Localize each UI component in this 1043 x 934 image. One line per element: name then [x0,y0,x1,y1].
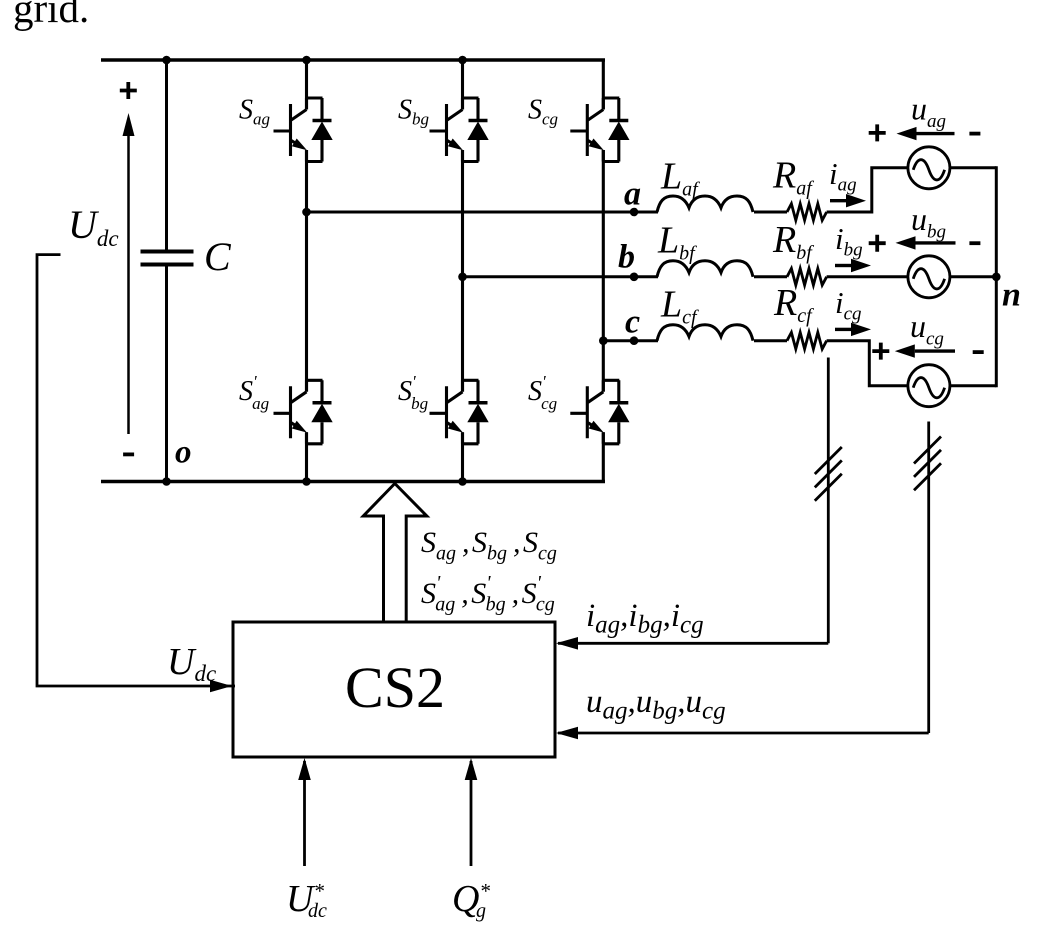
transistor S_cg [570,98,629,162]
node junction top leg a [302,56,311,65]
svg-text:S'bg: S'bg [398,372,428,413]
svg-text:S'ag , S'bg , S'cg: S'ag , S'bg , S'cg [421,572,555,616]
node tap leg a [302,208,311,217]
svg-text:Q*g: Q*g [452,878,490,922]
wire leg b upper [461,60,464,110]
wire Udc sense stub [37,255,235,686]
svg-text:o: o [175,435,192,471]
svg-text:grid.: grid. [13,0,89,31]
arrow current i_bg [835,264,851,267]
wire current feedback into CS2 [558,642,828,645]
arrow Udc* input [303,761,306,866]
transistor S'_ag [274,380,333,444]
wire leg b middle [461,150,464,392]
resistor R_cf [787,332,827,349]
arrow u_ag polarity [916,132,955,135]
svg-text:Udc: Udc [68,202,119,251]
svg-text:Rcf: Rcf [773,282,814,327]
svg-text:Lcf: Lcf [660,284,699,329]
svg-text:Sag , Sbg , Scg: Sag , Sbg , Scg [421,526,557,565]
transistor S_bg [430,98,489,162]
arrow current i_cg [835,328,851,331]
node tap leg b [458,273,467,282]
svg-text:Sbg: Sbg [398,95,429,129]
transistor S'_cg [570,380,629,444]
wire top DC rail [101,58,605,61]
node junction bottom leg a [302,477,311,486]
voltage source u_cg [908,365,950,407]
node junction bottom leg b [458,477,467,486]
label - u_cg [973,351,984,353]
svg-text:ibg: ibg [835,221,863,261]
inductor L_cf [657,325,753,341]
svg-text:uag,ubg,ucg: uag,ubg,ucg [586,684,726,725]
svg-text:Sag: Sag [239,95,270,129]
svg-text:U*dc: U*dc [286,878,327,922]
voltage source u_ag [908,147,950,189]
arrow u_bg polarity [915,241,956,244]
inductor L_af [657,196,753,212]
block CS2 [233,622,555,757]
svg-text:iag,ibg,icg: iag,ibg,icg [586,598,704,639]
node junction top leg b [458,56,467,65]
wire phase a [307,211,659,214]
label - dc negative [123,453,134,455]
svg-text:Udc: Udc [167,641,216,686]
node n [992,273,1001,282]
wire leg c middle [602,150,605,392]
svg-text:a: a [624,176,641,213]
svg-text:Laf: Laf [660,156,700,201]
wire phase c to source [827,341,908,386]
inductor L_bf [657,261,753,277]
svg-text:C: C [204,234,232,279]
wire bottom DC rail [101,480,605,483]
svg-text:Scg: Scg [528,95,558,129]
wire voltage measurement tap [927,422,930,734]
arrow gate signals hollow [363,484,427,623]
wire leg c lower [603,432,605,481]
svg-text:iag: iag [829,156,857,196]
node junction top capacitor [162,56,171,65]
svg-text:S'ag: S'ag [239,372,269,413]
svg-text:c: c [625,304,640,341]
slash marks current measurement [815,447,842,501]
node a [630,208,639,217]
svg-text:ucg: ucg [910,308,944,350]
wire u_cg to rail [950,384,996,387]
svg-text:n: n [1002,277,1021,314]
wire phase a mid [754,211,787,214]
wire leg a middle [305,150,308,392]
wire leg c upper [603,60,605,110]
wire phase b mid [754,275,787,278]
svg-text:b: b [618,239,635,276]
wire leg a upper [305,60,308,110]
label - u_bg [969,242,980,244]
svg-text:ubg: ubg [911,201,946,243]
svg-text:uag: uag [911,91,946,133]
svg-text:S'cg: S'cg [528,372,557,413]
wire u_bg to rail [950,275,996,278]
wire phase a to source [827,168,908,212]
wire current measurement tap [827,358,830,644]
resistor R_bf [787,269,827,286]
node tap leg c [599,336,608,345]
label + u_bg [869,235,886,252]
slash marks voltage measurement [914,437,941,491]
wire phase c mid [754,339,787,342]
wire u_ag to rail [950,166,996,169]
node c [630,336,639,345]
svg-text:Lbf: Lbf [657,220,697,265]
label + u_ag [869,124,886,141]
capacitor C [141,60,194,482]
transistor S'_bg [430,380,489,444]
svg-text:Rbf: Rbf [772,219,814,264]
svg-text:Raf: Raf [772,155,814,200]
wire right grid rail [995,166,998,387]
wire phase b [463,275,659,278]
node b [630,273,639,282]
arrow Udc into CS2 [210,680,232,693]
arrow current i_ag [830,199,848,202]
wire voltage feedback into CS2 [558,732,929,735]
arrow u_cg polarity [915,349,955,352]
svg-text:icg: icg [835,285,862,325]
wire leg a lower [305,432,308,481]
arrow Qg* input [470,761,473,866]
wire phase c [603,339,658,342]
node junction bottom capacitor [162,477,171,486]
label - u_ag [969,133,980,135]
label + u_cg [872,343,889,360]
wire phase b to source [827,275,908,278]
arrow Udc voltage [127,130,130,434]
wire leg b lower [461,432,464,481]
label + dc positive [120,82,137,99]
svg-text:CS2: CS2 [345,655,445,720]
transistor S_ag [274,98,333,162]
voltage source u_bg [908,256,950,298]
resistor R_af [787,204,827,221]
